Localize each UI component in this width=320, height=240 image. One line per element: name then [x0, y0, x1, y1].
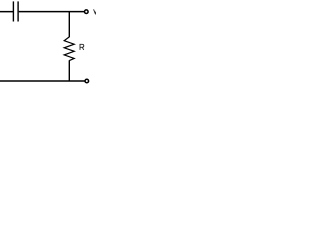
- resistor R zigzag: [64, 37, 74, 61]
- terminal V (open circle): [85, 10, 89, 14]
- terminal bottom (open circle): [85, 79, 89, 83]
- label V (cut off at right edge): [94, 9, 97, 13]
- wire vertical from top rail to resistor: [68, 12, 70, 38]
- wire bottom rail: [0, 80, 85, 82]
- wire vertical from resistor to bottom rail: [68, 60, 70, 81]
- wire top rail from capacitor to terminal: [19, 11, 85, 13]
- capacitor C1 left plate: [12, 1, 14, 21]
- wire top-left into capacitor: [0, 11, 13, 13]
- capacitor C1 right plate: [17, 1, 19, 21]
- label R: [80, 44, 84, 50]
